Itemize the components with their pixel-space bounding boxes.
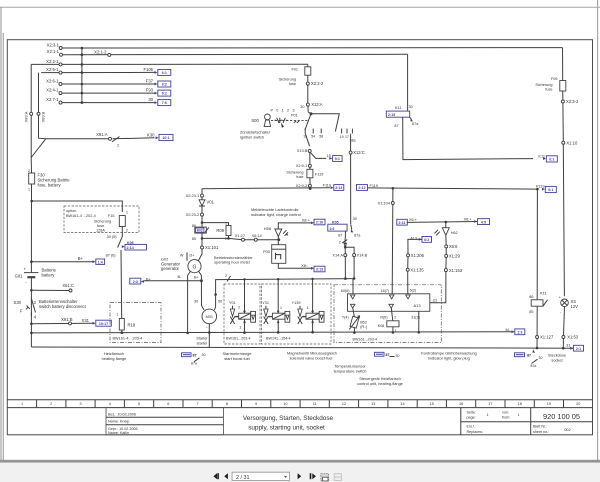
svg-text:fuse: fuse bbox=[97, 224, 104, 228]
svg-text:A13: A13 bbox=[414, 303, 422, 308]
terminal X2:1-2 bbox=[94, 49, 111, 56]
vertical bus of X2 rows bbox=[81, 48, 83, 103]
svg-text:2: 2 bbox=[117, 144, 119, 148]
relay contact K11 bbox=[386, 105, 419, 128]
svg-text:R18: R18 bbox=[128, 323, 136, 328]
ref box 2:1 bbox=[570, 345, 583, 351]
solenoid Y31 bbox=[262, 278, 290, 334]
svg-text:Name: Kallin: Name: Kallin bbox=[108, 431, 129, 435]
svg-text:X2:2-1: X2:2-1 bbox=[46, 59, 59, 64]
ref box 6:1 K11 bbox=[543, 156, 557, 162]
svg-text:F93: F93 bbox=[146, 88, 154, 93]
svg-text:F: F bbox=[20, 308, 23, 313]
svg-text:B+: B+ bbox=[194, 275, 200, 279]
svg-text:X1:101: X1:101 bbox=[205, 245, 219, 250]
junction node R18 bus bbox=[121, 331, 124, 334]
wire X51:C stub bbox=[31, 289, 69, 291]
solenoid Y31/Y139 dashed box bbox=[262, 284, 332, 344]
viewer right border line bbox=[597, 0, 599, 482]
svg-text:10: 10 bbox=[283, 402, 287, 406]
page number box bbox=[461, 408, 593, 435]
svg-text:BW161-4 ...202-4: BW161-4 ...202-4 bbox=[66, 214, 96, 218]
wire V01 column bbox=[201, 189, 203, 239]
svg-text:X89:A: X89:A bbox=[24, 111, 29, 122]
svg-text:control unit, heating-flange: control unit, heating-flange bbox=[357, 381, 403, 386]
GENSEC bbox=[130, 253, 354, 348]
svg-text:X91:A: X91:A bbox=[96, 132, 108, 137]
svg-text:1:9: 1:9 bbox=[329, 227, 334, 231]
svg-text:X89:B: X89:B bbox=[41, 111, 46, 122]
hour meter P00 bbox=[263, 245, 286, 264]
terminal X89:B bbox=[37, 111, 46, 122]
junction node K08 bus bbox=[392, 331, 395, 334]
svg-text:start boost fuel: start boost fuel bbox=[224, 356, 250, 361]
wire F01 drop bbox=[308, 64, 311, 113]
svg-text:87a: 87a bbox=[412, 122, 419, 126]
terminal X2:1-1 bbox=[47, 49, 63, 56]
svg-text:X2:1-2: X2:1-2 bbox=[94, 49, 107, 54]
junction node H58 bottom bbox=[277, 238, 280, 241]
relay contact K05 bbox=[328, 221, 361, 238]
junction node B+ bbox=[200, 279, 203, 282]
svg-text:X1:53: X1:53 bbox=[567, 335, 579, 340]
svg-text:temperature switch: temperature switch bbox=[334, 369, 367, 374]
junction node M01 bus bbox=[208, 331, 211, 334]
svg-text:1: 1 bbox=[239, 326, 241, 330]
wire F05 drop bbox=[563, 48, 565, 297]
terminal X2:4-1 bbox=[46, 88, 62, 95]
temperature sensor B53 bbox=[349, 307, 367, 329]
svg-text:F119: F119 bbox=[536, 183, 545, 188]
wire K06 to R18 bbox=[120, 250, 123, 319]
junction node X14 bbox=[344, 246, 347, 249]
svg-text:5(2): 5(2) bbox=[410, 289, 417, 293]
fuse F15 bbox=[119, 211, 128, 233]
wire G02 B- down bbox=[188, 272, 191, 333]
wire K11 87 out bbox=[403, 117, 533, 159]
svg-text:X2:3-1: X2:3-1 bbox=[47, 42, 60, 47]
wire X2:1 row bbox=[63, 53, 408, 55]
terminal X2:7-1 bbox=[46, 97, 62, 104]
svg-text:solenoid valve boost-fuel: solenoid valve boost-fuel bbox=[290, 355, 333, 360]
svg-text:switch battery disconnect: switch battery disconnect bbox=[39, 304, 87, 309]
svg-text:50: 50 bbox=[218, 299, 222, 303]
svg-text:12V: 12V bbox=[571, 304, 579, 309]
svg-text:X13:B: X13:B bbox=[297, 148, 308, 153]
svg-text:X1:29: X1:29 bbox=[449, 254, 461, 259]
svg-text:X1:27: X1:27 bbox=[235, 233, 245, 238]
svg-text:X6:6: X6:6 bbox=[449, 244, 458, 249]
svg-text:2: 2 bbox=[225, 274, 227, 278]
svg-text:B+: B+ bbox=[78, 256, 84, 261]
disabled pages icon bbox=[334, 474, 341, 481]
wire K11 feed bbox=[407, 54, 409, 111]
A13SEC bbox=[334, 188, 490, 342]
terminal X6:6 bbox=[445, 244, 458, 249]
svg-text:H58: H58 bbox=[264, 226, 271, 231]
svg-text:BW141...154-4: BW141...154-4 bbox=[266, 336, 291, 340]
CAPTIONS bbox=[102, 350, 566, 386]
svg-text:ignition switch: ignition switch bbox=[240, 135, 264, 140]
junction dots on X2 bus bbox=[81, 47, 84, 104]
svg-text:6: 6 bbox=[167, 402, 169, 406]
svg-text:10:1: 10:1 bbox=[162, 136, 169, 140]
svg-text:7: 7 bbox=[197, 402, 199, 406]
svg-text:B+: B+ bbox=[146, 277, 152, 281]
wire X13:B branch to 5:1 bbox=[310, 152, 326, 158]
switch blade X91:A bbox=[112, 137, 120, 148]
svg-text:X1:153: X1:153 bbox=[449, 268, 463, 273]
svg-text:1: 1 bbox=[28, 188, 30, 192]
svg-text:11: 11 bbox=[313, 402, 317, 406]
svg-text:G01: G01 bbox=[15, 274, 24, 279]
ref box 6:1 F119 bbox=[542, 186, 556, 192]
wire size mark 2 K05 bbox=[339, 240, 348, 245]
TITLEBLOCK bbox=[7, 400, 592, 436]
svg-text:20: 20 bbox=[576, 402, 580, 406]
svg-text:X2:4-1: X2:4-1 bbox=[46, 88, 59, 93]
terminal X1:206 bbox=[407, 253, 425, 258]
junction node F119 right bbox=[536, 188, 539, 191]
terminal X2:2-2 bbox=[306, 81, 324, 86]
junction node battery top bbox=[30, 200, 33, 203]
svg-text:sheet no.:: sheet no.: bbox=[533, 430, 549, 434]
svg-text:1: 1 bbox=[280, 306, 282, 310]
svg-text:X31: X31 bbox=[82, 318, 90, 323]
snapshot tool icon bbox=[321, 474, 329, 481]
svg-text:X2:1-1: X2:1-1 bbox=[47, 49, 60, 54]
svg-text:1: 1 bbox=[21, 402, 23, 406]
svg-text:9: 9 bbox=[255, 402, 257, 406]
svg-text:Starter: Starter bbox=[196, 337, 208, 341]
ignition linkage marks bbox=[275, 118, 288, 128]
wire X91:B row bbox=[31, 322, 92, 325]
svg-text:X1:135: X1:135 bbox=[410, 267, 424, 272]
junction node ignition bbox=[310, 112, 313, 115]
label Betriebsstundenzaehler bbox=[214, 255, 253, 265]
wire K11 coil feed bbox=[536, 189, 538, 300]
svg-text:X2:6-1: X2:6-1 bbox=[46, 79, 59, 84]
wire P00 to X8:- bbox=[278, 263, 311, 268]
svg-text:8: 8 bbox=[226, 402, 228, 406]
svg-text:X2:23-1: X2:23-1 bbox=[186, 193, 200, 198]
next page button bbox=[298, 473, 302, 479]
svg-text:Y139: Y139 bbox=[292, 301, 301, 305]
junction node X1:104 bbox=[392, 187, 395, 190]
svg-text:2 / 31: 2 / 31 bbox=[236, 475, 250, 481]
ref box 6:1 row bbox=[155, 69, 171, 75]
ground bus upper bbox=[31, 332, 514, 333]
ref box 10:17 bbox=[93, 320, 112, 326]
svg-text:2: 2 bbox=[394, 316, 396, 320]
svg-text:generator: generator bbox=[161, 266, 180, 271]
terminal X2:23-1 bbox=[186, 193, 204, 198]
column number strip bbox=[7, 400, 592, 408]
svg-text:X13:A: X13:A bbox=[311, 102, 323, 107]
svg-text:10:17: 10:17 bbox=[99, 322, 108, 326]
wire X2:5 row bbox=[41, 71, 154, 73]
svg-text:P01: P01 bbox=[291, 114, 298, 118]
svg-text:operating hour meter: operating hour meter bbox=[214, 260, 251, 265]
wire X1:104 column bbox=[391, 188, 394, 295]
page bottom shadow bar bbox=[0, 460, 600, 463]
schematic border frame bbox=[7, 40, 592, 435]
svg-text:K30: K30 bbox=[147, 132, 155, 137]
fuse F01 bbox=[279, 67, 311, 86]
terminal X13:A bbox=[300, 102, 323, 109]
svg-text:F15: F15 bbox=[108, 214, 115, 218]
indicator lamp H62 bbox=[435, 222, 458, 235]
svg-text:1:4: 1:4 bbox=[98, 260, 103, 264]
wire X6:+ row bbox=[407, 221, 477, 224]
svg-text:6:2: 6:2 bbox=[162, 83, 167, 87]
svg-text:1: 1 bbox=[307, 306, 309, 310]
junction node bus upper left bbox=[30, 332, 33, 335]
option dashed box bbox=[64, 206, 139, 233]
svg-text:19: 19 bbox=[547, 402, 551, 406]
svg-text:2: 2 bbox=[339, 240, 341, 244]
svg-text:Sicherung: Sicherung bbox=[535, 83, 552, 87]
svg-text:86: 86 bbox=[529, 295, 533, 299]
svg-text:X2:9-1: X2:9-1 bbox=[296, 163, 307, 168]
wire R09 parallel bbox=[202, 223, 229, 239]
svg-text:87: 87 bbox=[193, 354, 197, 358]
wire X14 to A13 pin bbox=[352, 279, 354, 296]
svg-text:19: 19 bbox=[340, 135, 344, 139]
svg-text:87a: 87a bbox=[531, 364, 537, 368]
relay coil K02 bbox=[192, 224, 209, 241]
wire contact 15 to X13:B bbox=[305, 133, 309, 146]
svg-text:16: 16 bbox=[459, 402, 463, 406]
svg-text:F01: F01 bbox=[291, 68, 298, 72]
terminal X1:29 bbox=[445, 254, 461, 259]
battery G01 bbox=[15, 267, 57, 285]
svg-text:Y31: Y31 bbox=[262, 301, 269, 305]
fuse F119 ignition bbox=[286, 169, 323, 179]
K06SEC bbox=[64, 206, 161, 343]
junction node H62 bbox=[445, 221, 448, 224]
terminal X91:A bbox=[96, 132, 111, 140]
wire H62 down bbox=[430, 235, 446, 302]
svg-text:M-: M- bbox=[505, 327, 510, 332]
svg-text:X2:3-2: X2:3-2 bbox=[566, 99, 579, 104]
ref box 1:3 bbox=[512, 329, 525, 335]
label Starter starter bbox=[196, 337, 208, 346]
socket XS bbox=[559, 296, 578, 315]
svg-text:30: 30 bbox=[148, 97, 153, 102]
ref box 10:1 bbox=[156, 134, 174, 140]
wire X2:3 row bbox=[62, 47, 562, 49]
svg-text:Name: Kneip: Name: Kneip bbox=[108, 420, 129, 424]
terminal X1:135 bbox=[406, 267, 424, 272]
terminal X2:3-1 bbox=[47, 42, 63, 49]
svg-text:16(7): 16(7) bbox=[381, 289, 390, 293]
terminal X51:C bbox=[62, 283, 74, 292]
TOOLBAR bbox=[0, 460, 600, 482]
wire K05 87 down bbox=[344, 231, 346, 239]
terminal X13:C bbox=[349, 150, 365, 155]
fuse F05 bbox=[535, 77, 565, 91]
svg-text:BW161-4 ...203-4: BW161-4 ...203-4 bbox=[113, 336, 143, 340]
ignition key S00 bbox=[251, 109, 295, 127]
sheet title text bbox=[243, 415, 334, 431]
wire G02 B+ down bbox=[199, 272, 204, 311]
option box labels bbox=[66, 209, 115, 233]
svg-text:1: 1 bbox=[126, 211, 128, 215]
svg-text:X2:5-1: X2:5-1 bbox=[46, 67, 59, 72]
viewer top border line bbox=[0, 6, 600, 8]
svg-text:5:1: 5:1 bbox=[335, 157, 340, 161]
wire H58 to X8:+ bbox=[278, 223, 311, 229]
svg-text:17: 17 bbox=[488, 402, 492, 406]
junction node X51 row bbox=[30, 289, 33, 292]
diode V01 bbox=[199, 199, 215, 206]
svg-text:1: 1 bbox=[487, 413, 489, 417]
svg-text:2: 2 bbox=[225, 237, 227, 241]
previous page button bbox=[224, 473, 228, 479]
wire XS to bus bbox=[563, 307, 564, 349]
ref box 2:16 bbox=[302, 219, 325, 225]
svg-text:X6:+: X6:+ bbox=[464, 217, 473, 221]
svg-text:2:16: 2:16 bbox=[316, 221, 323, 225]
svg-text:2:3: 2:3 bbox=[133, 280, 138, 284]
wire R18 to bus bbox=[121, 330, 123, 333]
wire X1:27 X6:14 bbox=[229, 238, 279, 239]
svg-text:Sicherung: Sicherung bbox=[94, 220, 111, 224]
svg-text:fuse, battery: fuse, battery bbox=[38, 182, 62, 187]
svg-text:from:: from: bbox=[502, 416, 510, 420]
generator G02 bbox=[161, 253, 201, 280]
solenoid Y01 dashed box bbox=[224, 284, 260, 344]
terminal X13:B bbox=[297, 148, 312, 153]
terminal X1:10 bbox=[562, 140, 578, 145]
svg-text:F119: F119 bbox=[315, 172, 323, 176]
svg-text:18: 18 bbox=[518, 402, 522, 406]
mechanical dashed link bbox=[271, 120, 309, 122]
svg-text:X8:+: X8:+ bbox=[302, 219, 311, 223]
svg-text:G: G bbox=[193, 265, 197, 271]
svg-text:P00: P00 bbox=[263, 249, 271, 254]
ref box 4:5 bbox=[474, 219, 489, 225]
relay fragment glow bbox=[375, 352, 400, 358]
svg-text:31: 31 bbox=[566, 343, 570, 348]
svg-text:fuse: fuse bbox=[296, 175, 303, 179]
wire X14 columns bbox=[345, 247, 354, 278]
svg-text:2:13: 2:13 bbox=[335, 186, 342, 190]
wire X91:A row bbox=[39, 73, 155, 139]
wire to ref 2:3 bbox=[144, 280, 201, 282]
svg-text:supply, starting unit, socket: supply, starting unit, socket bbox=[248, 425, 325, 432]
ground bus lower bbox=[31, 347, 573, 348]
svg-text:7:6: 7:6 bbox=[162, 101, 167, 105]
svg-text:P 0 1 2 3: P 0 1 2 3 bbox=[271, 109, 296, 113]
svg-text:2: 2 bbox=[50, 402, 52, 406]
svg-text:BW161...203-4: BW161...203-4 bbox=[226, 336, 251, 340]
svg-text:K11: K11 bbox=[540, 291, 547, 296]
svg-text:6:1: 6:1 bbox=[549, 158, 554, 162]
terminal X2:6-1 bbox=[46, 79, 62, 86]
junction node X91:B row bbox=[30, 323, 33, 326]
svg-text:1:3: 1:3 bbox=[517, 331, 522, 335]
svg-text:2: 2 bbox=[126, 229, 128, 233]
svg-text:3: 3 bbox=[79, 402, 81, 406]
svg-text:K08: K08 bbox=[378, 324, 385, 328]
svg-text:R09: R09 bbox=[216, 228, 224, 233]
wire X2:4 row bbox=[62, 92, 154, 94]
ref box 2:12 bbox=[357, 184, 378, 191]
svg-text:12: 12 bbox=[342, 402, 346, 406]
svg-text:1: 1 bbox=[395, 329, 397, 333]
svg-text:54: 54 bbox=[311, 135, 315, 139]
terminal X2:9-1 bbox=[296, 163, 312, 168]
svg-text:X1:206: X1:206 bbox=[411, 253, 425, 258]
svg-text:page:: page: bbox=[467, 416, 476, 420]
svg-text:T(4): T(4) bbox=[342, 315, 349, 319]
svg-text:Blatt Nr.:: Blatt Nr.: bbox=[533, 425, 547, 429]
svg-text:X14:A: X14:A bbox=[332, 253, 343, 258]
wire F15 to K06 bbox=[121, 227, 123, 237]
svg-text:X51:C: X51:C bbox=[62, 283, 74, 288]
svg-text:Sicherung: Sicherung bbox=[279, 77, 296, 81]
terminal X1:127 bbox=[536, 335, 554, 340]
terminal X2:9-2 bbox=[296, 183, 312, 188]
svg-text:128A: 128A bbox=[96, 229, 105, 233]
ref box 7:6 row bbox=[155, 100, 171, 106]
fuse F30 bbox=[28, 169, 70, 192]
starter M01 bbox=[202, 309, 217, 330]
junction nodes X14 bottom bbox=[344, 277, 355, 280]
svg-text:920 100 05: 920 100 05 bbox=[543, 412, 580, 421]
ref box 6:2 A13 bbox=[419, 237, 432, 243]
wire K11 coil to bus bbox=[536, 306, 538, 348]
svg-text:9:2: 9:2 bbox=[162, 92, 167, 96]
svg-text:87a: 87a bbox=[354, 234, 361, 238]
terminal X1:153 bbox=[444, 268, 462, 273]
svg-text:60(6): 60(6) bbox=[341, 289, 350, 293]
svg-text:X91:B: X91:B bbox=[61, 317, 73, 322]
svg-text:1: 1 bbox=[518, 413, 520, 417]
relay fragment heater bbox=[182, 353, 206, 366]
svg-text:30: 30 bbox=[409, 105, 413, 109]
wire B53 to bus bbox=[353, 327, 355, 332]
svg-text:S30: S30 bbox=[14, 300, 22, 305]
relay coil K08 bbox=[378, 307, 399, 328]
svg-text:3:13: 3:13 bbox=[316, 268, 323, 272]
ref box 9:2 row bbox=[155, 90, 171, 96]
MIDSEC bbox=[186, 189, 368, 295]
svg-text:K11: K11 bbox=[395, 106, 401, 110]
name/date box bbox=[106, 408, 224, 436]
wire to option fuse F15 bbox=[32, 201, 123, 212]
svg-text:H62: H62 bbox=[451, 231, 458, 235]
ref box 3:13 bbox=[301, 264, 325, 272]
solenoid Y01 bbox=[229, 278, 256, 334]
svg-text:(1): (1) bbox=[433, 299, 438, 303]
contact P01 bbox=[291, 114, 299, 123]
junction node B53 bus bbox=[353, 331, 356, 334]
first page button bbox=[213, 473, 219, 479]
svg-text:X1:127: X1:127 bbox=[540, 335, 554, 340]
svg-text:1: 1 bbox=[117, 313, 119, 317]
svg-text:2:11: 2:11 bbox=[399, 221, 406, 225]
svg-text:Versorgung, Starten, Steckdose: Versorgung, Starten, Steckdose bbox=[243, 415, 334, 422]
wire starter 50 bbox=[215, 279, 355, 310]
svg-text:002: 002 bbox=[565, 428, 571, 432]
svg-text:30: 30 bbox=[300, 105, 304, 109]
svg-text:K02: K02 bbox=[197, 229, 203, 233]
svg-text:87 (6): 87 (6) bbox=[106, 254, 117, 258]
svg-text:fuse: fuse bbox=[545, 88, 552, 92]
